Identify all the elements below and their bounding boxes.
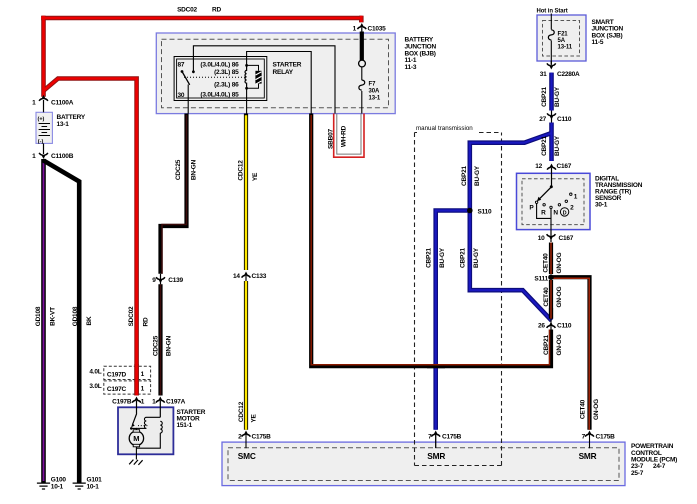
svg-text:SDC02: SDC02: [128, 306, 135, 326]
battery internal plates: [39, 124, 50, 136]
svg-text:1: 1: [141, 371, 145, 378]
starter solenoid right coil: [136, 421, 162, 448]
label powertrain control module PCM: [631, 443, 677, 477]
connector C197A arrow pin 1: [156, 397, 165, 418]
svg-text:11-5: 11-5: [592, 39, 604, 46]
label wire CBP21 BU-GY S110 branch: [461, 165, 481, 186]
wire CBP21 BU-GY branch to S110 manual transmission: [470, 133, 552, 211]
starter solenoid dotted link: [138, 425, 149, 427]
wire CBP21 BU-GY S110 left branch to C175B PCM SMR: [436, 211, 470, 430]
powertrain control module PCM box: [222, 442, 625, 486]
svg-text:manual transmission: manual transmission: [416, 125, 473, 132]
TR sensor contact P: [535, 201, 537, 203]
svg-text:C110: C110: [557, 323, 572, 330]
wire CBP21 BU-GY S110 down to C110 pin 26 join: [470, 211, 552, 321]
svg-text:12: 12: [535, 163, 542, 170]
TR sensor contact R: [543, 204, 545, 206]
svg-text:N: N: [553, 210, 558, 217]
wire overlay CBP21 GN-OG over blue crossing: [427, 365, 445, 367]
relay switch arm: [182, 72, 190, 85]
fuse F7 symbol: [359, 80, 365, 90]
svg-text:30: 30: [178, 92, 185, 99]
label fuse F21: [558, 32, 573, 51]
connector C197D dashed box 4.0L: [104, 366, 151, 379]
label wire CDC12 YE: [238, 401, 258, 422]
svg-text:G100: G100: [51, 477, 67, 484]
wire CBP21 GN-OG BJB coil feed down and right to C110 pin 26: [311, 114, 551, 367]
svg-text:SMR: SMR: [427, 451, 445, 461]
wire SDC02 RD branch to starter motor: [44, 79, 137, 396]
svg-text:C1100B: C1100B: [51, 153, 74, 160]
svg-text:GD108: GD108: [35, 306, 42, 326]
svg-text:25-7: 25-7: [631, 470, 644, 477]
svg-text:SDC02: SDC02: [177, 7, 197, 14]
wire CET40 GN-OG overlay above C110 pin 26: [549, 308, 553, 323]
svg-text:1: 1: [32, 153, 36, 160]
label wire CET40 GN-OG upper: [543, 252, 564, 273]
svg-text:CDC25: CDC25: [175, 159, 182, 180]
svg-text:CDC12: CDC12: [238, 160, 245, 181]
label wire CDC25 BN-GN lower: [152, 335, 172, 356]
splice S111: [548, 274, 554, 280]
svg-text:BU-GY: BU-GY: [554, 86, 561, 107]
svg-text:1: 1: [141, 386, 145, 393]
svg-text:1: 1: [152, 398, 156, 405]
svg-text:R: R: [541, 210, 546, 217]
svg-text:G101: G101: [87, 477, 103, 484]
svg-text:C167: C167: [559, 235, 574, 242]
starter motor M circle: [129, 430, 143, 447]
ground G100 symbol: [37, 483, 50, 489]
label starter relay: [273, 62, 302, 77]
relay feed contact dot: [192, 70, 195, 73]
svg-text:BK-VT: BK-VT: [50, 307, 57, 326]
connector C175B arrow pin 2: [242, 431, 251, 449]
svg-text:13-11: 13-11: [558, 45, 573, 51]
label wire CDC25 BN-GN upper: [175, 159, 198, 180]
wire CBP21 BU-GY C110 to C167 pin 12: [549, 123, 554, 162]
label wire CBP21 GN-OG: [543, 334, 563, 355]
svg-text:BU-GY: BU-GY: [439, 247, 446, 268]
relay switch pivot pin 87: [181, 70, 184, 73]
wire SBB07 WH-RD busbar U loop inner gray edge: [337, 114, 361, 155]
svg-text:CBP21: CBP21: [460, 247, 467, 267]
svg-text:WH-RD: WH-RD: [340, 125, 347, 147]
svg-text:GD108: GD108: [72, 306, 79, 326]
svg-text:GN-OG: GN-OG: [556, 286, 563, 307]
svg-text:27: 27: [539, 116, 546, 123]
starter relay box: [174, 57, 267, 101]
svg-text:CBP21: CBP21: [541, 135, 548, 155]
TR sensor contact D circle: [560, 208, 568, 216]
svg-text:SMC: SMC: [238, 451, 256, 461]
svg-text:C110: C110: [557, 116, 572, 123]
svg-text:C175B: C175B: [252, 434, 272, 441]
svg-text:7: 7: [582, 434, 586, 441]
svg-text:C175B: C175B: [442, 434, 462, 441]
svg-text:(3.0L/4.0L) 86: (3.0L/4.0L) 86: [200, 62, 239, 69]
wire C175B stub SMC: [245, 435, 247, 449]
wire C175B stub SMR right: [589, 435, 591, 449]
svg-text:1: 1: [141, 398, 145, 405]
svg-text:26: 26: [538, 323, 545, 330]
wire CBP21 BU-GY C2280A to C110 pin 27: [549, 73, 554, 111]
svg-text:2: 2: [570, 204, 574, 211]
relay resistor: [247, 65, 262, 88]
svg-text:(+): (+): [38, 116, 45, 122]
wire CET40 GN-OG S111 to C110 pin 26: [549, 280, 553, 319]
connector C139 arrow pin 9: [156, 274, 165, 284]
splice S110: [467, 208, 473, 214]
battery box: [36, 112, 52, 143]
svg-text:151-1: 151-1: [177, 422, 193, 429]
wire CET40 GN-OG S111 right branch to C175B PCM SMR: [553, 277, 590, 430]
svg-text:RD: RD: [212, 7, 221, 14]
label smart junction box SJB: [592, 19, 624, 46]
wire CET40 GN-OG TR sensor C167 pin 10 to S111: [549, 243, 553, 275]
svg-text:RELAY: RELAY: [273, 69, 294, 76]
connector C175B arrow pin 7 right: [585, 431, 594, 449]
svg-text:BK: BK: [86, 316, 93, 325]
svg-text:C175B: C175B: [596, 434, 616, 441]
connector C167 arrow pin 12: [547, 164, 556, 187]
label wire CBP21 BU-GY S110 down: [460, 247, 481, 268]
svg-text:C139: C139: [168, 277, 183, 284]
TR sensor wiper arm: [537, 187, 551, 202]
svg-text:7: 7: [428, 434, 432, 441]
svg-text:CET40: CET40: [543, 253, 550, 273]
starter motor ground wire: [135, 447, 137, 460]
svg-text:1: 1: [574, 193, 578, 200]
svg-text:S110: S110: [478, 209, 493, 216]
manual transmission dashed region: [415, 133, 502, 466]
svg-text:(-): (-): [38, 139, 44, 145]
smart junction box SJB: [537, 15, 586, 61]
connector C1100A arrow: [39, 95, 48, 113]
svg-text:C1100A: C1100A: [51, 100, 74, 107]
wire terminal to fuse F7: [361, 67, 363, 80]
TR sensor contact 1 dot: [570, 193, 572, 195]
svg-text:CDC12: CDC12: [238, 401, 245, 422]
svg-text:RD: RD: [143, 317, 150, 326]
wire inside BJB C1035 to terminal: [360, 32, 364, 61]
svg-text:10: 10: [538, 235, 545, 242]
label ground G100: [51, 477, 67, 491]
label wire SDC02 RD vertical: [128, 306, 149, 327]
connector C1100B arrow: [39, 143, 48, 159]
svg-text:30-1: 30-1: [595, 202, 608, 209]
label fuse F7: [369, 82, 381, 102]
svg-text:10-1: 10-1: [87, 484, 100, 491]
connector C133 arrow pin 14: [242, 272, 251, 282]
svg-text:YE: YE: [251, 414, 258, 423]
svg-text:F7: F7: [369, 82, 377, 88]
svg-text:C197D: C197D: [107, 372, 127, 379]
svg-text:(2.3L) 85: (2.3L) 85: [214, 69, 239, 76]
TR sensor contact D dot: [558, 204, 560, 206]
svg-text:13-1: 13-1: [57, 121, 70, 128]
wire CBP21 BU-GY bright core overlays: [436, 73, 552, 430]
svg-text:1: 1: [353, 26, 357, 33]
starter solenoid left coil: [136, 417, 160, 428]
fuse F21 symbol: [548, 30, 554, 40]
starter motor chassis ground: [129, 460, 142, 465]
TR sensor output wire: [537, 204, 551, 230]
wire SDC02 RD vertical drop to C1035: [359, 16, 364, 23]
label wire GD108 BK-VT: [35, 306, 57, 326]
svg-text:CET40: CET40: [579, 399, 586, 419]
svg-text:BN-GN: BN-GN: [166, 335, 173, 356]
svg-text:3.0L: 3.0L: [89, 383, 101, 390]
svg-text:M: M: [133, 434, 139, 443]
digital transmission range TR sensor box: [517, 173, 591, 229]
starter motor box: [118, 407, 173, 454]
label ground G101: [87, 477, 103, 491]
connector C175B arrow pin 7 middle: [431, 431, 440, 449]
label wire CBP21 BU-GY segment 2: [541, 135, 561, 156]
connector C110 arrow pin 26: [547, 322, 556, 330]
label wire CBP21 BU-GY segment 1: [541, 86, 561, 107]
connector C197C dashed box 3.0L: [104, 381, 151, 394]
svg-text:C2280A: C2280A: [557, 71, 580, 78]
svg-text:C133: C133: [252, 273, 267, 280]
wire A relay coil feed inside BJB: [247, 52, 312, 114]
wire CDC12 YE C133 to C175B PCM SMC: [244, 281, 248, 430]
svg-text:GN-OG: GN-OG: [556, 334, 563, 355]
TR sensor contact 2 dot: [565, 200, 567, 202]
TR sensor contact N: [550, 206, 552, 208]
wire GD108 BK-VT battery negative to G100: [41, 159, 46, 483]
wire fuse F21 to SJB bottom C2280A: [550, 41, 552, 66]
TR sensor pivot: [550, 185, 553, 188]
starter motor switch arm: [130, 414, 137, 430]
ground G101 symbol: [73, 483, 86, 489]
label wire GD108 BK: [72, 306, 93, 326]
svg-text:1: 1: [32, 100, 36, 107]
connector C197B arrow pin 1: [132, 397, 141, 414]
label starter motor: [177, 409, 206, 429]
wire fuse F7 to BJB bottom: [361, 91, 363, 114]
label TR sensor block: [595, 176, 643, 209]
svg-text:CDC25: CDC25: [152, 335, 159, 356]
wire relay coil bottom to BJB bottom: [246, 88, 248, 113]
terminal stud in BJB: [359, 60, 366, 67]
svg-text:BATTERY: BATTERY: [57, 114, 86, 121]
relay coil: [245, 64, 248, 90]
svg-text:YE: YE: [252, 172, 259, 181]
svg-text:5A: 5A: [558, 38, 566, 44]
svg-text:CBP21: CBP21: [461, 165, 468, 185]
label battery junction box BJB: [405, 37, 437, 72]
connector C1035 arrow: [357, 23, 366, 32]
svg-text:Hot in Start: Hot in Start: [537, 9, 568, 15]
svg-text:(3.0L/4.0L) 85: (3.0L/4.0L) 85: [200, 92, 239, 99]
wire SDC02 RD vertical to battery C1100A: [41, 16, 46, 97]
svg-text:CBP21: CBP21: [543, 334, 550, 354]
label wire CDC12 YE upper: [238, 160, 260, 181]
svg-text:BU-GY: BU-GY: [473, 247, 480, 268]
relay mechanical dotted link: [184, 76, 246, 78]
svg-text:CBP21: CBP21: [425, 247, 432, 267]
label wire CET40 GN-OG lower: [543, 286, 563, 307]
svg-text:D: D: [563, 210, 567, 216]
svg-text:BN-GN: BN-GN: [191, 159, 198, 180]
svg-text:C197B: C197B: [112, 398, 132, 405]
svg-text:F21: F21: [558, 32, 569, 38]
connector C2280A arrow pin 31: [547, 61, 556, 70]
svg-text:SBB07: SBB07: [327, 128, 334, 148]
wire SDC02 RD top horizontal battery to C1035: [41, 16, 361, 21]
wire C175B stub SMR middle: [435, 435, 437, 449]
wire SDC02 RD overlay through C197 boxes: [134, 364, 139, 395]
wire SDC02 RD bright core overlays: [41, 16, 361, 396]
starter motor solenoid contact wire: [131, 428, 136, 431]
svg-text:4.0L: 4.0L: [89, 368, 101, 375]
wire SBB07 WH-RD busbar U loop outer red edge: [334, 114, 364, 158]
wire CDC12 YE relay coil to C133: [244, 114, 248, 271]
svg-text:C1035: C1035: [368, 26, 387, 33]
svg-text:(2.3L) 86: (2.3L) 86: [214, 82, 239, 89]
battery junction box BJB: [156, 33, 395, 114]
svg-text:S111: S111: [534, 276, 548, 283]
svg-text:GN-OG: GN-OG: [593, 399, 600, 420]
svg-text:87: 87: [178, 62, 185, 69]
svg-text:30A: 30A: [369, 89, 380, 95]
svg-text:C197C: C197C: [107, 386, 127, 393]
wire relay pin 30 output inside BJB: [187, 85, 189, 114]
connector C110 arrow pin 27: [547, 111, 556, 123]
svg-text:SMR: SMR: [579, 451, 597, 461]
svg-text:13-1: 13-1: [369, 96, 381, 102]
svg-text:STARTER: STARTER: [273, 62, 302, 69]
svg-text:31: 31: [540, 71, 547, 78]
svg-text:BU-GY: BU-GY: [474, 165, 481, 186]
label battery: [57, 114, 86, 128]
wire B relay 87 feed inside BJB: [193, 46, 335, 114]
svg-text:BU-GY: BU-GY: [554, 135, 561, 156]
svg-text:14: 14: [233, 273, 240, 280]
svg-text:CBP21: CBP21: [541, 86, 548, 106]
svg-text:9: 9: [152, 277, 156, 284]
svg-text:GN-OG: GN-OG: [556, 252, 563, 273]
svg-text:24-7: 24-7: [653, 463, 666, 470]
svg-text:CET40: CET40: [543, 287, 550, 307]
label wire CBP21 BU-GY left branch: [425, 247, 446, 268]
label wire SBB07 WH-RD: [327, 125, 347, 149]
wire hot in start feed into SJB: [550, 14, 552, 30]
svg-text:11-3: 11-3: [405, 64, 417, 71]
label wire CET40 GN-OG right branch: [579, 399, 600, 420]
wire GD108 BK battery negative to G101: [44, 161, 80, 483]
svg-text:10-1: 10-1: [51, 484, 64, 491]
wire CDC25 BN-GN relay 30 to C139 to C197A: [161, 114, 187, 396]
svg-text:C197A: C197A: [166, 398, 186, 405]
svg-text:C167: C167: [557, 163, 572, 170]
svg-text:2: 2: [238, 434, 242, 441]
connector C167 arrow pin 10: [547, 230, 556, 242]
